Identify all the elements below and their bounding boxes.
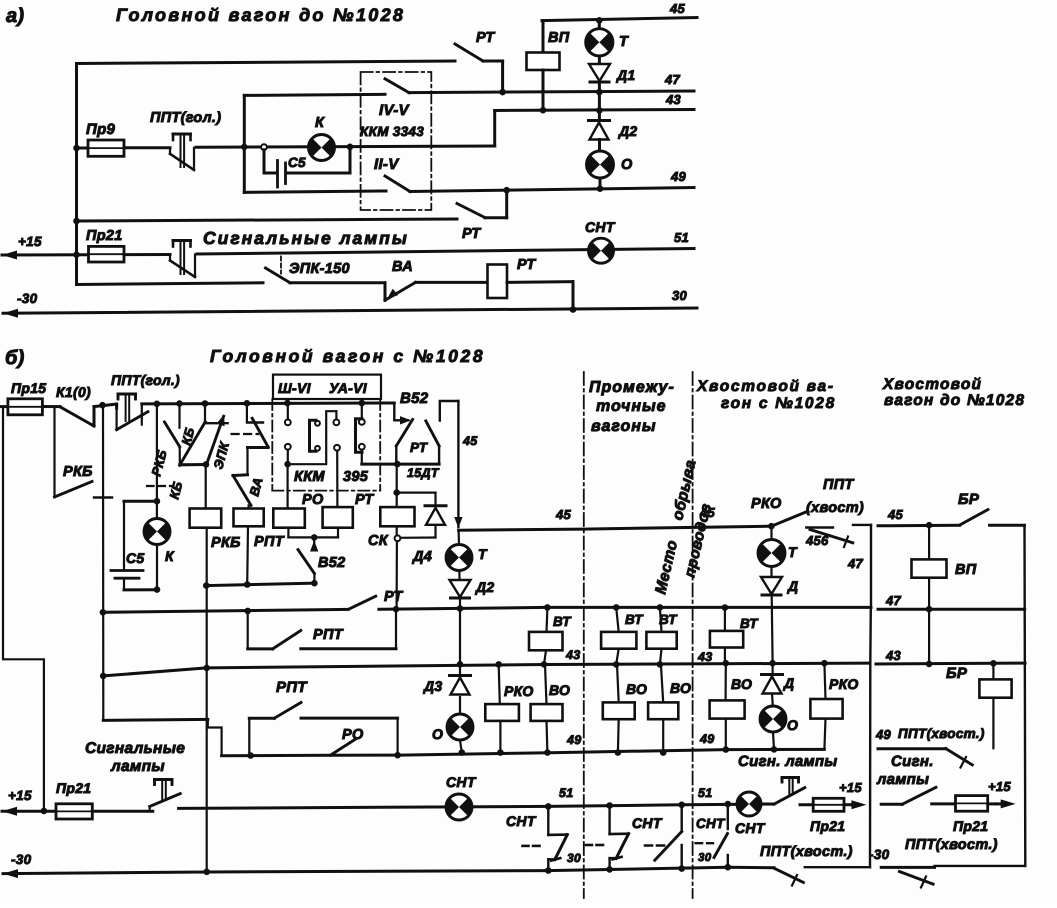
relay coil VO2 — [617, 664, 619, 702]
svg-text:51: 51 — [698, 786, 713, 800]
contact KB lower link — [179, 447, 181, 465]
svg-text:СНТ: СНТ — [696, 816, 726, 831]
KKM plug contact pair 2 — [335, 411, 337, 419]
svg-text:49: 49 — [699, 732, 715, 746]
relay coil VO1 — [545, 664, 547, 704]
svg-text:Д1: Д1 — [616, 67, 636, 83]
relay coil VT2 — [616, 607, 619, 632]
svg-text:РКО: РКО — [504, 683, 534, 699]
svg-text:РКО: РКО — [751, 496, 782, 512]
svg-text:лампы: лампы — [110, 758, 165, 775]
relay coil VP right — [928, 525, 930, 559]
svg-text:Ш-VI: Ш-VI — [278, 380, 312, 396]
wire 30 section a — [3, 309, 18, 318]
wire 30 section b — [3, 869, 18, 878]
wire: junction to RKB coil — [205, 464, 207, 508]
wire 30 right column — [881, 866, 934, 869]
wire 49 section b — [222, 749, 825, 755]
contact EPK arrow blade — [207, 416, 224, 464]
svg-text:ВП: ВП — [548, 30, 570, 46]
svg-text:РКБ: РКБ — [211, 535, 241, 551]
svg-text:Хвостовой ва-: Хвостовой ва- — [696, 378, 835, 395]
wire: RT coil to wire 30a — [572, 282, 575, 310]
wire: lamp chain 47a-43a — [598, 81, 601, 121]
svg-text:вагоны: вагоны — [591, 418, 657, 435]
wire: BR loop right side — [990, 524, 1025, 527]
node: junctions on 30b — [545, 867, 552, 874]
wire: KKM interlink zigzag — [288, 411, 337, 464]
wire 45 section a — [542, 18, 697, 21]
svg-text:а): а) — [6, 5, 24, 27]
switch sig lamps right — [881, 803, 902, 806]
svg-text:+15: +15 — [18, 234, 42, 249]
relay coil RT b — [323, 507, 353, 528]
contact RT on 47b — [349, 596, 376, 609]
lamp SNT section b — [446, 794, 472, 820]
svg-text:IV-V: IV-V — [379, 102, 411, 119]
KKM bracket shell 2 — [356, 419, 363, 453]
SNT jumper 3 — [681, 805, 683, 832]
wire 47 section a — [409, 91, 694, 93]
svg-text:СНТ: СНТ — [632, 815, 663, 831]
contact RT upper section a — [455, 44, 483, 61]
KKM plug contact pair 3 — [361, 403, 363, 419]
capacitor C5 section a — [263, 150, 266, 173]
box: KKM label box b — [273, 375, 381, 399]
svg-text:гон с №1028: гон с №1028 — [721, 395, 836, 412]
svg-text:Головной вагон с №1028: Головной вагон с №1028 — [210, 346, 485, 366]
wire: RKB coil bottom bus — [206, 583, 314, 585]
svg-text:БР: БР — [946, 665, 968, 682]
svg-text:+15: +15 — [839, 780, 862, 795]
svg-text:О: О — [432, 726, 443, 742]
svg-text:-30: -30 — [869, 847, 890, 862]
wire: VP to 43 — [928, 609, 930, 664]
node: junctions on wire 47a — [499, 89, 506, 96]
wire 45 section b — [459, 526, 772, 530]
wire 43 section a — [493, 111, 496, 147]
svg-text:30: 30 — [698, 852, 712, 864]
contact IV-V of KKM — [385, 79, 409, 93]
svg-text:Т: Т — [478, 546, 488, 562]
svg-text:ППТ: ППТ — [823, 477, 854, 493]
switch PPT(tail) on wire 30 — [774, 868, 803, 882]
fuse Pr21 right +15 — [932, 802, 956, 805]
svg-text:ВТ: ВТ — [553, 614, 572, 629]
svg-text:О: О — [787, 717, 798, 733]
svg-text:ЭПК-150: ЭПК-150 — [289, 261, 350, 277]
svg-text:К1(0): К1(0) — [56, 384, 91, 400]
svg-text:ВТ: ВТ — [659, 612, 678, 627]
svg-text:Сигн.: Сигн. — [891, 753, 934, 770]
svg-text:49: 49 — [566, 733, 582, 747]
node: open terminal at C5 tap — [261, 144, 267, 150]
svg-text:РТ: РТ — [517, 257, 536, 273]
svg-text:СНТ: СНТ — [585, 219, 616, 235]
svg-text:ВТ: ВТ — [740, 616, 759, 631]
wire 49 right column — [878, 747, 946, 750]
svg-text:РО: РО — [342, 727, 364, 743]
box: tail car right border — [869, 607, 872, 663]
svg-text:(хвост): (хвост) — [806, 500, 864, 516]
svg-text:РПТ: РПТ — [254, 534, 285, 550]
wire 51 section b — [179, 804, 774, 808]
switch PPT(gol.) section b — [115, 404, 118, 408]
relay coil VO tail — [724, 663, 726, 700]
svg-text:Д2: Д2 — [475, 579, 495, 595]
relay coil BR right — [992, 663, 994, 679]
box: KKM dash-dot enclosure a — [361, 72, 432, 210]
svg-text:456: 456 — [805, 533, 829, 548]
svg-text:43: 43 — [697, 650, 713, 664]
switch PPT on Pr21 wire b — [149, 807, 151, 812]
SNT jumper 2 — [608, 806, 610, 835]
KKM bracket shell 1 — [310, 420, 317, 451]
svg-text:РТ: РТ — [462, 226, 481, 242]
contact RT lower section a — [457, 204, 485, 218]
contact B52 upper (tent) — [394, 403, 408, 420]
svg-text:РТ: РТ — [384, 589, 403, 605]
svg-text:49: 49 — [670, 169, 687, 184]
svg-text:РТ: РТ — [410, 440, 429, 455]
svg-text:Д: Д — [787, 578, 798, 594]
relay coil RO b — [287, 464, 289, 508]
svg-text:вагон до №1028: вагон до №1028 — [884, 392, 1025, 409]
svg-text:РКО: РКО — [829, 676, 859, 692]
svg-text:Хвостовой: Хвостовой — [882, 376, 982, 393]
wire: long vertical to wire 30b — [206, 528, 208, 872]
svg-text:СК: СК — [368, 533, 389, 549]
wire 47 section b — [103, 609, 348, 612]
node: main wire b taps — [99, 402, 106, 409]
contact EPK-150 — [280, 257, 282, 274]
contact KB upper (vertical label) — [204, 404, 206, 424]
svg-text:Сигнальные: Сигнальные — [85, 740, 185, 757]
contact VA section b — [248, 446, 269, 449]
svg-text:II-V: II-V — [374, 156, 400, 173]
contact BR on 45 — [960, 510, 988, 525]
svg-text:РПТ: РПТ — [313, 627, 344, 643]
svg-text:47: 47 — [885, 593, 902, 608]
svg-text:лампы: лампы — [876, 771, 929, 788]
switch PPT sig tail — [761, 803, 774, 806]
relay coil RKB b — [190, 509, 222, 528]
svg-text:РТ: РТ — [355, 492, 374, 508]
svg-text:-30: -30 — [11, 852, 32, 867]
contact RPT bypass on 47b — [247, 611, 249, 649]
diode D4 — [397, 492, 436, 494]
svg-text:47: 47 — [847, 556, 864, 571]
wire: 45 feeder from B52 — [440, 401, 459, 421]
contact B52 lower — [313, 537, 315, 546]
svg-text:ППТ(хвост.): ППТ(хвост.) — [905, 837, 998, 853]
wire: top border of section a — [77, 61, 456, 64]
svg-text:43: 43 — [665, 92, 682, 107]
box: KKM dash-dot enclosure b — [271, 399, 273, 491]
lamp SNT section a — [589, 238, 614, 263]
svg-text:30: 30 — [567, 851, 581, 865]
svg-text:О: О — [621, 157, 633, 173]
svg-text:-30: -30 — [17, 291, 38, 306]
svg-text:43: 43 — [885, 648, 902, 663]
wire: tail chain to 43 — [771, 595, 774, 663]
wire 51 section a — [197, 249, 694, 255]
svg-text:ППТ(хвост.): ППТ(хвост.) — [760, 844, 853, 860]
svg-text:точные: точные — [596, 398, 667, 415]
node: junctions on wire 49a — [503, 187, 510, 194]
svg-text:ППТ(хвост.): ППТ(хвост.) — [898, 726, 985, 741]
lamp SNT tail — [737, 792, 761, 816]
svg-text:ВО: ВО — [549, 682, 570, 698]
svg-text:ВО: ВО — [626, 681, 647, 697]
svg-text:395: 395 — [343, 469, 369, 485]
switch PPT on Pr21 wire a — [170, 261, 195, 278]
connector bracket 456/47 — [853, 524, 871, 526]
svg-text:Д3: Д3 — [423, 678, 443, 694]
svg-text:ППТ(гол.): ППТ(гол.) — [150, 110, 221, 126]
svg-text:Пр9: Пр9 — [86, 121, 116, 138]
diode D tail lower — [771, 663, 773, 674]
svg-text:47: 47 — [664, 72, 681, 87]
svg-text:ВТ: ВТ — [625, 612, 644, 627]
contact RO lower — [330, 739, 356, 755]
svg-text:45: 45 — [699, 505, 716, 520]
wire: K bypass loop — [243, 95, 246, 192]
svg-text:РКБ: РКБ — [63, 464, 93, 480]
lamp O tail — [771, 694, 774, 707]
svg-text:К: К — [165, 548, 175, 564]
lamp K section b — [156, 404, 158, 519]
svg-text:Пр21: Пр21 — [953, 818, 988, 834]
node: junctions on 49b — [459, 749, 466, 756]
svg-text:Д: Д — [783, 675, 794, 691]
svg-text:ППТ(гол.): ППТ(гол.) — [111, 372, 180, 388]
svg-text:УА-VI: УА-VI — [329, 380, 368, 396]
svg-text:В52: В52 — [318, 555, 346, 571]
lamp K section a — [309, 135, 335, 161]
wire 47 right column — [878, 608, 1025, 611]
wire: signal lamp feeder b — [103, 719, 208, 720]
svg-text:ККМ: ККМ — [294, 469, 325, 485]
svg-text:РТ: РТ — [476, 30, 495, 46]
SNT jumper 1 — [547, 806, 549, 835]
svg-text:+15: +15 — [8, 788, 32, 803]
relay coil VP section a — [542, 21, 545, 53]
capacitor C5 section b — [124, 500, 157, 503]
svg-text:Головной вагон до №1028: Головной вагон до №1028 — [116, 5, 405, 25]
node: junctions on 47b — [244, 608, 251, 615]
svg-text:51: 51 — [559, 786, 574, 800]
wire: signal lamp feeder a — [77, 219, 458, 221]
svg-text:РПТ: РПТ — [276, 679, 308, 696]
relay coil VO3 — [661, 664, 663, 702]
svg-text:Сигнальные лампы: Сигнальные лампы — [203, 228, 409, 248]
wire: SK to wire47b — [396, 526, 398, 535]
svg-text:45: 45 — [669, 1, 686, 16]
SNT jumper tail — [727, 804, 729, 829]
relay coil VT4 — [724, 608, 726, 631]
node: junctions on 43b — [457, 661, 464, 668]
wire: main wire a to K loop — [196, 146, 495, 147]
svg-text:45: 45 — [462, 434, 478, 448]
wire: +15 feeder from Pr15 — [3, 407, 44, 811]
boundary: intermediate cars dash-dot right — [692, 372, 694, 898]
node: junctions on 51b — [545, 803, 552, 810]
svg-text:БР: БР — [958, 491, 980, 508]
svg-text:Д2: Д2 — [618, 123, 638, 139]
node: junctions on left bus — [73, 145, 80, 152]
svg-text:Промежу-: Промежу- — [589, 379, 675, 396]
wire: RO-RT coil bottoms — [287, 528, 289, 538]
lamp O section a — [598, 140, 601, 152]
svg-text:ВО: ВО — [731, 676, 752, 692]
contact RKB left — [53, 407, 55, 497]
svg-text:ВП: ВП — [955, 562, 977, 578]
boundary: intermediate cars dash-dot left — [583, 372, 585, 898]
svg-text:СНТ: СНТ — [446, 774, 477, 790]
wire 49 section a — [410, 188, 694, 192]
switch PPT(tail) on 49 right — [946, 749, 973, 765]
svg-text:15ДТ: 15ДТ — [407, 466, 440, 480]
node: lamp chain tap on 45a — [596, 17, 603, 24]
svg-text:К: К — [315, 115, 325, 131]
wire: bottom of section a loop — [77, 283, 264, 285]
svg-text:+15: +15 — [988, 779, 1011, 794]
box: right column bottom border — [935, 865, 1026, 867]
lamp chain T-D2-D3-O section b — [458, 530, 461, 544]
fuse Pr15 — [0, 405, 8, 408]
svg-text:Пр21: Пр21 — [810, 818, 845, 834]
svg-text:В52: В52 — [400, 390, 429, 407]
svg-text:51: 51 — [674, 230, 689, 245]
svg-text:30: 30 — [672, 288, 688, 303]
relay coil RKO left — [499, 664, 500, 704]
fuse Pr21 tail +15 — [800, 803, 813, 806]
svg-text:45: 45 — [887, 507, 904, 522]
svg-text:Пр21: Пр21 — [86, 228, 123, 244]
wire: left vertical bus — [75, 64, 78, 285]
svg-text:СНТ: СНТ — [735, 820, 766, 836]
switch PPT(gol.) section a — [170, 154, 194, 170]
diode D tail upper — [770, 567, 772, 578]
relay coil VT3 — [660, 607, 662, 632]
wire 43 right column — [876, 662, 1025, 666]
svg-text:49: 49 — [875, 727, 892, 742]
svg-text:РО: РО — [302, 492, 324, 508]
svg-text:б): б) — [5, 347, 25, 369]
switch PPT(tail) on 30 right — [899, 872, 933, 885]
diode D1 — [598, 56, 601, 64]
svg-text:СНТ: СНТ — [506, 813, 537, 829]
contact RKB (vertical label) — [178, 404, 180, 428]
relay coil SK — [396, 464, 398, 507]
wire 45 right column — [878, 524, 960, 528]
svg-text:Пр21: Пр21 — [56, 780, 91, 796]
lamp T section a — [598, 20, 601, 29]
wire 43 section b — [103, 663, 868, 676]
wire: main wire b — [142, 402, 394, 406]
wire: K1 branch vertical — [102, 405, 105, 720]
contact II-V of KKM — [385, 176, 410, 192]
fuse Pr9 — [77, 147, 89, 150]
diode D2 section a — [589, 119, 610, 122]
svg-text:Д4: Д4 — [411, 549, 432, 565]
relay coil VT1 — [545, 607, 548, 632]
relay coil RT section a — [416, 281, 488, 284]
KKM plug contact pair 1 — [287, 403, 289, 420]
svg-text:ВО: ВО — [670, 680, 691, 696]
svg-text:Пр15: Пр15 — [11, 380, 46, 396]
contact EPK (vertical label) — [246, 403, 248, 421]
svg-text:С5: С5 — [288, 155, 306, 170]
fuse Pr21 section a — [2, 251, 17, 260]
contact RKO tail — [768, 523, 775, 530]
lamp T tail — [770, 526, 772, 540]
contact K1(0) — [42, 405, 60, 408]
svg-text:Т: Т — [619, 34, 629, 50]
svg-text:Сигн. лампы: Сигн. лампы — [738, 753, 837, 770]
svg-text:ККМ 3343: ККМ 3343 — [360, 124, 424, 139]
svg-text:С5: С5 — [126, 550, 145, 566]
relay coil RKO tail — [824, 663, 825, 699]
svg-text:45: 45 — [555, 507, 572, 522]
svg-text:Т: Т — [788, 544, 798, 560]
wire: RPT coil bottom lead — [246, 526, 249, 584]
relay coil RPT b — [248, 505, 250, 508]
svg-text:43: 43 — [565, 648, 581, 662]
svg-text:ВА: ВА — [392, 259, 413, 275]
contact VA section a — [290, 281, 385, 284]
node: K loop taps — [241, 144, 248, 151]
